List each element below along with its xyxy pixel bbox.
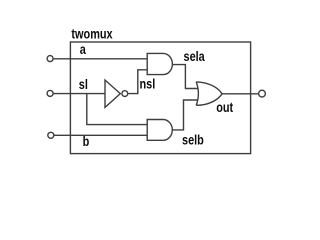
svg-text:out: out — [216, 100, 234, 116]
svg-text:sela: sela — [184, 49, 206, 65]
svg-text:nsl: nsl — [140, 76, 156, 92]
svg-text:a: a — [80, 42, 87, 58]
svg-text:b: b — [83, 134, 90, 150]
svg-text:selb: selb — [182, 132, 204, 148]
svg-text:sl: sl — [79, 77, 88, 93]
svg-text:twomux: twomux — [71, 26, 112, 42]
